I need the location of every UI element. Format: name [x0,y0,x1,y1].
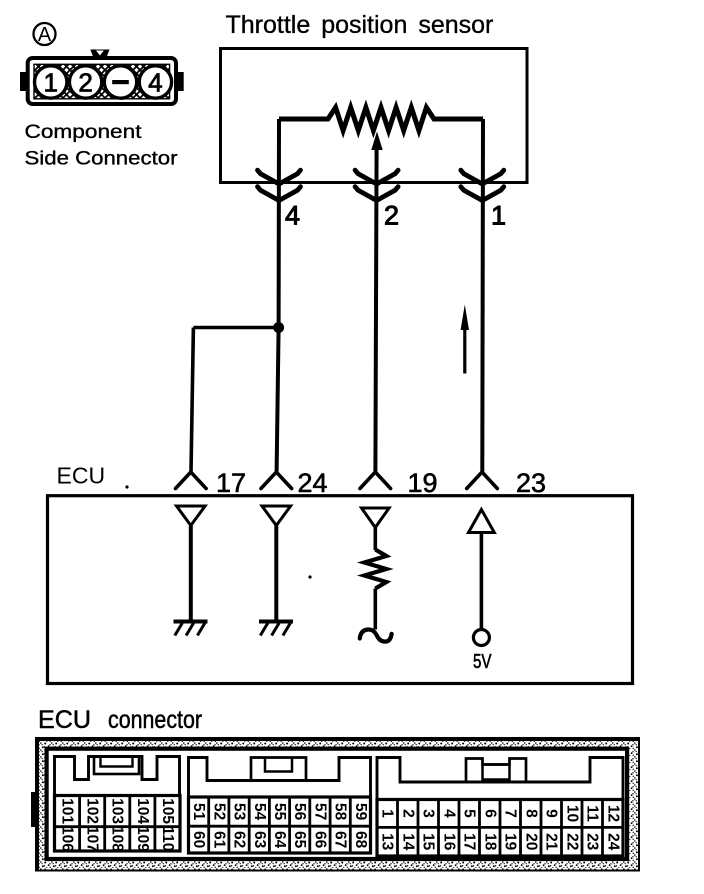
svg-text:Component: Component [25,121,143,143]
svg-text:ECU: ECU [38,706,91,734]
svg-text:ECU: ECU [57,463,106,489]
svg-text:1: 1 [491,201,506,231]
svg-text:14: 14 [399,833,416,851]
svg-text:20: 20 [522,833,539,850]
svg-text:64: 64 [271,831,288,849]
svg-text:17: 17 [216,468,246,498]
svg-text:68: 68 [352,831,369,849]
svg-text:2: 2 [78,68,92,98]
svg-text:105: 105 [159,798,176,824]
svg-text:4: 4 [148,68,162,98]
svg-text:6: 6 [481,809,498,818]
svg-text:1: 1 [43,68,57,98]
svg-text:110: 110 [159,826,176,851]
svg-text:51: 51 [190,803,207,821]
svg-text:A: A [38,24,52,46]
svg-text:61: 61 [210,831,227,849]
svg-text:10: 10 [563,805,580,822]
svg-text:3: 3 [420,809,437,818]
svg-text:5V: 5V [473,650,492,673]
svg-text:11: 11 [584,805,601,822]
svg-text:9: 9 [543,809,560,818]
svg-text:56: 56 [291,803,308,821]
svg-text:103: 103 [109,798,126,824]
svg-text:2: 2 [384,201,399,231]
svg-text:17: 17 [461,833,478,850]
svg-text:60: 60 [190,831,207,848]
svg-text:12: 12 [604,805,621,822]
svg-text:58: 58 [332,803,349,821]
svg-text:19: 19 [502,833,519,851]
svg-text:65: 65 [291,831,308,849]
svg-text:107: 107 [84,826,101,852]
svg-text:108: 108 [109,826,126,852]
svg-text:62: 62 [231,831,248,848]
svg-text:1: 1 [379,809,396,818]
svg-text:23: 23 [516,468,546,498]
svg-text:102: 102 [84,798,101,824]
svg-text:Throttle position sensor: Throttle position sensor [226,11,494,39]
svg-text:104: 104 [134,798,151,824]
svg-text:16: 16 [440,833,457,851]
svg-text:5: 5 [461,809,478,818]
svg-text:24: 24 [604,833,621,851]
svg-text:8: 8 [522,809,539,818]
svg-text:53: 53 [231,803,248,821]
svg-text:24: 24 [298,468,328,498]
svg-text:Side Connector: Side Connector [25,148,179,170]
svg-text:18: 18 [481,833,498,851]
svg-text:67: 67 [332,831,349,848]
svg-text:15: 15 [420,833,437,851]
svg-text:101: 101 [59,798,76,824]
svg-text:4: 4 [440,809,457,818]
svg-text:19: 19 [408,468,438,498]
svg-text:2: 2 [399,809,416,818]
svg-text:connector: connector [108,706,202,734]
svg-text:55: 55 [271,803,288,821]
svg-text:54: 54 [251,803,268,821]
svg-text:22: 22 [563,833,580,850]
svg-text:59: 59 [352,803,369,821]
svg-text:21: 21 [543,833,560,851]
svg-text:23: 23 [584,833,601,851]
svg-text:52: 52 [210,803,227,820]
svg-text:57: 57 [311,803,328,820]
svg-text:13: 13 [379,833,396,851]
svg-text:109: 109 [134,826,151,852]
svg-text:63: 63 [251,831,268,849]
svg-text:106: 106 [59,826,76,852]
svg-text:4: 4 [285,201,300,231]
svg-text:7: 7 [502,809,519,818]
svg-text:66: 66 [311,831,328,849]
